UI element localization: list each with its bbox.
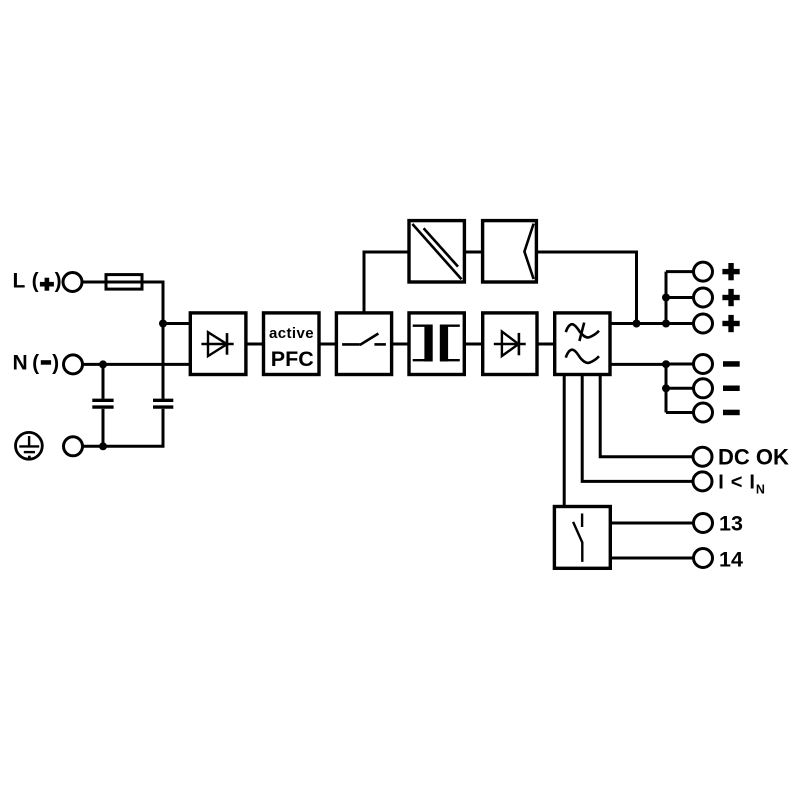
svg-text:13: 13	[719, 512, 743, 536]
svg-text:(: (	[32, 269, 39, 292]
svg-text:L: L	[13, 269, 26, 292]
svg-text:DC OK: DC OK	[718, 445, 789, 470]
svg-text:): )	[55, 269, 62, 292]
svg-text:I: I	[749, 472, 755, 494]
svg-text:(: (	[32, 351, 39, 374]
svg-text:): )	[52, 351, 59, 374]
svg-text:N: N	[756, 482, 765, 496]
svg-text:active: active	[269, 325, 314, 342]
svg-text:<: <	[731, 472, 743, 494]
svg-text:I: I	[718, 472, 724, 494]
svg-text:PFC: PFC	[271, 347, 314, 371]
svg-text:14: 14	[719, 547, 743, 571]
svg-text:N: N	[13, 351, 28, 374]
